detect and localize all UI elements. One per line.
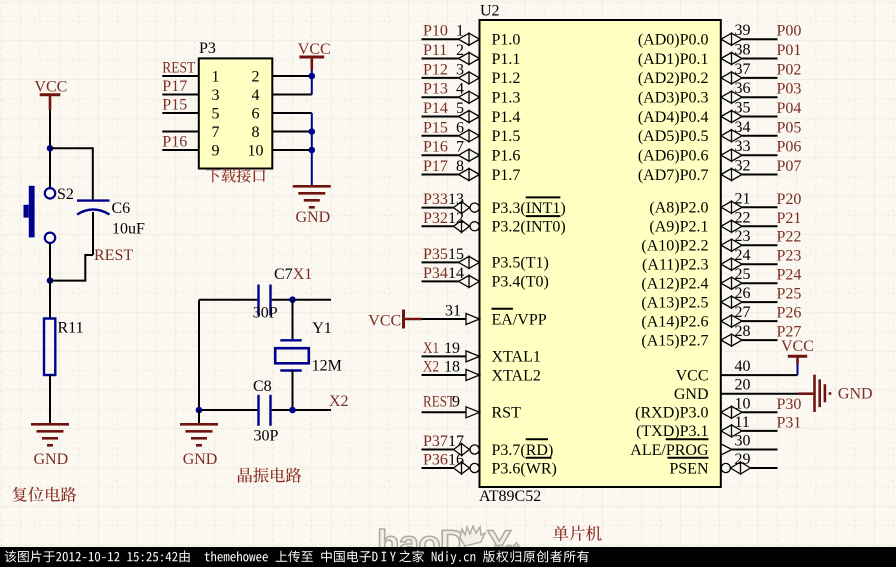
junction X2/Y1 xyxy=(289,407,296,414)
svg-text:P15: P15 xyxy=(162,97,187,114)
svg-text:14: 14 xyxy=(448,265,464,282)
svg-text:P17: P17 xyxy=(162,78,187,95)
svg-text:23: 23 xyxy=(735,228,751,245)
pin 9 RST xyxy=(422,411,467,413)
pin 16 P3.6/WR xyxy=(422,467,454,469)
svg-text:VCC: VCC xyxy=(368,312,401,329)
connector P3 download header xyxy=(199,58,272,168)
svg-text:P13: P13 xyxy=(423,81,448,98)
svg-text:P21: P21 xyxy=(777,210,802,227)
svg-text:(A11)P2.3: (A11)P2.3 xyxy=(642,257,709,274)
svg-text:(A13)P2.5: (A13)P2.5 xyxy=(641,294,708,311)
ground symbol (reset) xyxy=(31,423,69,426)
junction pin2 xyxy=(309,73,316,80)
wire P3 pin 8 xyxy=(272,131,312,133)
VCC symbol T-bar (reset) xyxy=(40,93,61,96)
svg-text:8: 8 xyxy=(456,158,464,175)
svg-text:P11: P11 xyxy=(423,42,447,59)
wire VCC to S2 top xyxy=(49,110,51,188)
resistor R11 xyxy=(44,319,55,376)
svg-text:24: 24 xyxy=(735,247,751,264)
svg-text:P1.4: P1.4 xyxy=(492,109,521,126)
wire junction to R11 xyxy=(49,281,51,319)
svg-text:9: 9 xyxy=(212,143,220,160)
svg-text:P26: P26 xyxy=(777,305,802,322)
wire P3 pin 6 xyxy=(272,112,312,114)
svg-text:VCC: VCC xyxy=(34,79,67,96)
junction X1/Y1 xyxy=(289,296,296,303)
svg-text:25: 25 xyxy=(735,266,751,283)
pin 34 P0.5 xyxy=(742,135,778,137)
svg-text:X1: X1 xyxy=(423,340,439,357)
svg-text:XTAL2: XTAL2 xyxy=(492,367,541,384)
pin 8 P1.7 xyxy=(422,174,459,176)
svg-text:39: 39 xyxy=(735,22,751,39)
capacitor C7 xyxy=(257,285,259,316)
svg-text:P00: P00 xyxy=(777,23,802,40)
svg-text:P3.7(RD): P3.7(RD) xyxy=(492,442,554,459)
svg-text:P23: P23 xyxy=(777,248,802,265)
svg-text:P33: P33 xyxy=(423,191,448,208)
wire P3 pin 5 xyxy=(162,112,199,114)
pin 36 P0.3 xyxy=(742,96,778,98)
svg-text:6: 6 xyxy=(456,119,464,136)
svg-text:P12: P12 xyxy=(423,61,448,78)
wire left vertical xyxy=(198,300,200,410)
svg-text:P02: P02 xyxy=(777,61,802,78)
wire P3 pin 10 xyxy=(272,149,312,151)
wire P3 pin 3 xyxy=(162,94,199,96)
svg-text:P10: P10 xyxy=(423,23,448,40)
svg-text:13: 13 xyxy=(448,191,464,208)
VCC stem red xyxy=(49,95,52,110)
svg-text:P3.4(T0): P3.4(T0) xyxy=(492,274,549,291)
pin 38 P0.1 xyxy=(742,58,778,60)
pin 1 P1.0 xyxy=(422,38,459,40)
pin 37 P0.2 xyxy=(742,77,778,79)
svg-text:12: 12 xyxy=(448,210,464,227)
svg-text:30: 30 xyxy=(735,433,751,450)
svg-text:(A8)P2.0: (A8)P2.0 xyxy=(649,200,708,217)
pin 23 P2.2 xyxy=(742,244,778,246)
caption 晶振电路 xyxy=(238,468,301,483)
svg-text:P3.3(INT1): P3.3(INT1) xyxy=(492,200,566,217)
pin 14 P3.4/T0 xyxy=(422,280,459,282)
svg-text:P22: P22 xyxy=(777,229,802,246)
pin 5 P1.4 xyxy=(422,116,459,118)
pin 2 P1.1 xyxy=(422,58,459,60)
pin 6 P1.5 xyxy=(422,135,459,137)
svg-text:16: 16 xyxy=(448,452,464,469)
ground symbol (pin 20, rotated) xyxy=(813,375,816,412)
wire P3 pin 9 xyxy=(162,149,199,151)
pin 7 P1.6 xyxy=(422,154,459,156)
pin 27 P2.6 xyxy=(742,320,778,322)
svg-text:8: 8 xyxy=(252,124,260,141)
svg-text:5: 5 xyxy=(456,100,464,117)
svg-text:18: 18 xyxy=(444,359,460,376)
VCC symbol T-bar (P3) xyxy=(299,56,324,59)
svg-text:X1: X1 xyxy=(293,266,313,283)
svg-text:P25: P25 xyxy=(777,286,802,303)
svg-text:37: 37 xyxy=(735,61,751,78)
wire VCC to EA xyxy=(422,318,466,320)
svg-text:X2: X2 xyxy=(423,359,439,376)
svg-text:AT89C52: AT89C52 xyxy=(479,488,541,505)
svg-text:30P: 30P xyxy=(254,427,279,444)
svg-text:(A12)P2.4: (A12)P2.4 xyxy=(641,276,708,293)
wire R11 to GND xyxy=(49,375,51,424)
svg-text:P36: P36 xyxy=(423,452,448,469)
svg-text:C6: C6 xyxy=(112,200,131,217)
VCC stem red (EA) xyxy=(404,318,423,321)
svg-text:28: 28 xyxy=(735,323,751,340)
VCC stem red (pin40) xyxy=(796,357,799,365)
svg-text:P24: P24 xyxy=(777,267,802,284)
svg-text:P3: P3 xyxy=(199,40,216,57)
wire bottom left to C8 xyxy=(199,409,257,411)
svg-text:2: 2 xyxy=(252,69,260,86)
svg-text:P04: P04 xyxy=(777,100,802,117)
svg-text:VCC: VCC xyxy=(676,367,709,384)
pin 4 P1.3 xyxy=(422,96,459,98)
pin 12 P3.2/INT0 xyxy=(422,225,454,227)
pin 11 P3.1/TXD xyxy=(742,430,778,432)
bottom info bar xyxy=(0,547,896,567)
svg-text:(A9)P2.1: (A9)P2.1 xyxy=(649,219,708,236)
svg-text:11: 11 xyxy=(735,414,750,431)
svg-text:(A10)P2.2: (A10)P2.2 xyxy=(641,238,708,255)
caption 复位电路 xyxy=(12,487,76,502)
svg-text:7: 7 xyxy=(212,124,220,141)
pin 10 P3.0/RXD xyxy=(742,411,778,413)
wire C7 to X1 net xyxy=(272,299,331,301)
svg-text:P1.1: P1.1 xyxy=(492,51,521,68)
pin 3 P1.2 xyxy=(422,77,459,79)
svg-text:7: 7 xyxy=(456,139,464,156)
pin 40 VCC xyxy=(721,374,798,376)
junction node above R11 xyxy=(47,277,54,284)
wire C8 to X2 net xyxy=(272,409,331,411)
pin 13 P3.3/INT1 xyxy=(422,207,454,209)
wire C6 bottom xyxy=(92,212,94,255)
svg-text:P37: P37 xyxy=(423,433,448,450)
pin 20 GND xyxy=(721,393,798,395)
svg-text:P07: P07 xyxy=(777,158,802,175)
VCC stem red (P3) xyxy=(310,57,313,70)
pin 17 P3.7/RD xyxy=(422,449,454,451)
svg-text:10: 10 xyxy=(248,143,264,160)
wire down to C6 top xyxy=(92,147,94,200)
svg-text:P03: P03 xyxy=(777,81,802,98)
svg-text:P3.6(WR): P3.6(WR) xyxy=(492,460,557,477)
IC U2 AT89C52 body xyxy=(480,20,721,487)
svg-text:U2: U2 xyxy=(480,3,500,20)
svg-text:21: 21 xyxy=(735,190,751,207)
svg-text:GND: GND xyxy=(674,386,709,403)
pin 21 P2.0 xyxy=(742,206,778,208)
svg-text:(AD3)P0.3: (AD3)P0.3 xyxy=(638,90,709,107)
pin 22 P2.1 xyxy=(742,225,778,227)
wire P3 pin 2 xyxy=(272,75,312,77)
capacitor C6 xyxy=(77,199,110,201)
svg-text:9: 9 xyxy=(452,394,460,411)
wire P3 pin 1 xyxy=(162,75,199,77)
overline PROG xyxy=(666,438,709,440)
svg-text:22: 22 xyxy=(735,209,751,226)
svg-text:S2: S2 xyxy=(57,186,74,203)
svg-text:P34: P34 xyxy=(423,265,448,282)
svg-text:P32: P32 xyxy=(423,210,448,227)
svg-text:R11: R11 xyxy=(58,320,84,337)
svg-text:RST: RST xyxy=(492,405,522,422)
svg-text:GND: GND xyxy=(296,209,331,226)
pin 25 P2.4 xyxy=(742,282,778,284)
svg-text:P1.6: P1.6 xyxy=(492,148,521,165)
svg-text:15: 15 xyxy=(448,246,464,263)
svg-text:(AD5)P0.5: (AD5)P0.5 xyxy=(638,128,709,145)
svg-text:(AD7)P0.7: (AD7)P0.7 xyxy=(638,167,709,184)
wire top left to C7 xyxy=(199,299,257,301)
pin 19 XTAL1 xyxy=(422,355,467,357)
svg-text:35: 35 xyxy=(735,100,751,117)
crystal Y1 xyxy=(280,339,301,341)
VCC symbol T-bar (pin40) xyxy=(788,355,807,358)
caption 单片机 xyxy=(553,526,602,541)
svg-text:PSEN: PSEN xyxy=(669,460,709,477)
svg-text:REST: REST xyxy=(162,60,195,77)
svg-text:P05: P05 xyxy=(777,119,802,136)
svg-text:36: 36 xyxy=(735,80,751,97)
svg-text:VCC: VCC xyxy=(298,41,331,58)
svg-text:20: 20 xyxy=(735,377,751,394)
pin 18 XTAL2 xyxy=(422,374,467,376)
pin 29 PSEN xyxy=(751,467,778,469)
svg-text:(AD6)P0.6: (AD6)P0.6 xyxy=(638,148,709,165)
wire P3 pin 7 xyxy=(162,131,199,133)
svg-text:P01: P01 xyxy=(777,42,802,59)
input arrow pin31 xyxy=(466,314,480,325)
GND stem red (pin20) xyxy=(798,392,813,395)
svg-text:P20: P20 xyxy=(777,191,802,208)
svg-text:3: 3 xyxy=(212,87,220,104)
wire VCC to pins 2,4 xyxy=(311,70,313,95)
svg-text:5: 5 xyxy=(212,106,220,123)
svg-text:12M: 12M xyxy=(312,357,342,374)
svg-text:32: 32 xyxy=(735,158,751,175)
svg-text:GND: GND xyxy=(34,451,69,468)
svg-text:EA/VPP: EA/VPP xyxy=(492,311,547,328)
svg-text:P15: P15 xyxy=(423,119,448,136)
svg-text:VCC: VCC xyxy=(781,338,814,355)
overline EA xyxy=(492,308,513,310)
svg-text:2: 2 xyxy=(456,42,464,59)
svg-text:P14: P14 xyxy=(423,100,448,117)
svg-text:26: 26 xyxy=(735,285,751,302)
switch S2 xyxy=(45,188,55,198)
wire branch to C6 xyxy=(50,147,93,149)
svg-text:C7: C7 xyxy=(274,266,293,283)
svg-text:P31: P31 xyxy=(777,414,802,431)
pin 24 P2.3 xyxy=(742,263,778,265)
capacitor C8 xyxy=(257,395,259,426)
wire pins 6,8,10 to GND xyxy=(311,113,313,186)
svg-text:P3.5(T1): P3.5(T1) xyxy=(492,255,549,272)
svg-text:X2: X2 xyxy=(329,393,349,410)
svg-text:19: 19 xyxy=(444,340,460,357)
pin 26 P2.5 xyxy=(742,301,778,303)
junction pin10 xyxy=(309,147,316,154)
svg-text:P06: P06 xyxy=(777,139,802,156)
svg-text:(AD2)P0.2: (AD2)P0.2 xyxy=(638,70,709,87)
wire jog to junction xyxy=(50,255,93,281)
svg-text:40: 40 xyxy=(735,358,751,375)
pin 39 P0.0 xyxy=(742,38,778,40)
svg-text:31: 31 xyxy=(445,303,461,320)
pin 35 P0.4 xyxy=(742,116,778,118)
svg-text:(AD1)P0.1: (AD1)P0.1 xyxy=(638,51,709,68)
svg-text:10uF: 10uF xyxy=(112,220,145,237)
wire S2 bottom to junction xyxy=(49,243,51,281)
svg-text:(AD0)P0.0: (AD0)P0.0 xyxy=(638,32,709,49)
svg-text:(A15)P2.7: (A15)P2.7 xyxy=(641,332,708,349)
svg-text:P16: P16 xyxy=(162,134,187,151)
svg-text:GND: GND xyxy=(838,386,873,403)
caption 下载接口 xyxy=(206,168,265,182)
svg-text:(RXD)P3.0: (RXD)P3.0 xyxy=(635,405,708,422)
wire to Y1 top xyxy=(292,300,294,341)
svg-text:34: 34 xyxy=(735,119,751,136)
junction pin8 xyxy=(309,128,316,135)
svg-text:27: 27 xyxy=(735,304,751,321)
svg-text:10: 10 xyxy=(735,395,751,412)
svg-text:P3.2(INT0): P3.2(INT0) xyxy=(492,219,566,236)
pin 15 P3.5/T1 xyxy=(422,261,459,263)
svg-text:(TXD)P3.1: (TXD)P3.1 xyxy=(636,423,708,440)
svg-text:P1.2: P1.2 xyxy=(492,70,521,87)
svg-text:C8: C8 xyxy=(253,378,272,395)
svg-text:6: 6 xyxy=(252,106,260,123)
svg-text:P1.3: P1.3 xyxy=(492,90,521,107)
svg-text:P17: P17 xyxy=(423,158,448,175)
junction node at S2/C6 branch xyxy=(47,145,54,152)
wire to GND (crystal) xyxy=(198,410,200,424)
overline PSEN xyxy=(668,457,709,459)
pin 30 ALE/PROG xyxy=(732,449,778,451)
svg-text:30P: 30P xyxy=(253,305,278,322)
svg-text:1: 1 xyxy=(212,69,220,86)
wire P3 pin 4 xyxy=(272,94,312,96)
svg-text:Y1: Y1 xyxy=(312,320,332,337)
junction GND corner xyxy=(196,407,203,414)
svg-text:P16: P16 xyxy=(423,139,448,156)
svg-text:XTAL1: XTAL1 xyxy=(492,349,541,366)
svg-text:GND: GND xyxy=(183,451,218,468)
svg-text:REST: REST xyxy=(423,394,455,411)
svg-text:ALE/PROG: ALE/PROG xyxy=(630,442,709,459)
svg-text:P1.5: P1.5 xyxy=(492,128,521,145)
svg-text:17: 17 xyxy=(448,433,464,450)
wire Y1 bottom xyxy=(292,371,294,411)
ground symbol (P3) xyxy=(293,185,331,188)
svg-text:P1.7: P1.7 xyxy=(492,167,521,184)
pin 33 P0.6 xyxy=(742,154,778,156)
svg-text:(A14)P2.6: (A14)P2.6 xyxy=(641,313,708,330)
svg-text:1: 1 xyxy=(456,23,464,40)
svg-text:38: 38 xyxy=(735,42,751,59)
svg-text:REST: REST xyxy=(94,247,133,264)
svg-text:4: 4 xyxy=(456,81,464,98)
svg-text:4: 4 xyxy=(252,87,260,104)
svg-text:P30: P30 xyxy=(777,396,802,413)
svg-text:P1.0: P1.0 xyxy=(492,32,521,49)
pin 28 P2.7 xyxy=(742,339,778,341)
svg-text:P35: P35 xyxy=(423,246,448,263)
svg-text:29: 29 xyxy=(735,451,751,468)
ground symbol (crystal) xyxy=(180,423,218,426)
svg-text:(AD4)P0.4: (AD4)P0.4 xyxy=(638,109,709,126)
svg-text:3: 3 xyxy=(456,61,464,78)
svg-text:33: 33 xyxy=(735,138,751,155)
pin 32 P0.7 xyxy=(742,174,778,176)
